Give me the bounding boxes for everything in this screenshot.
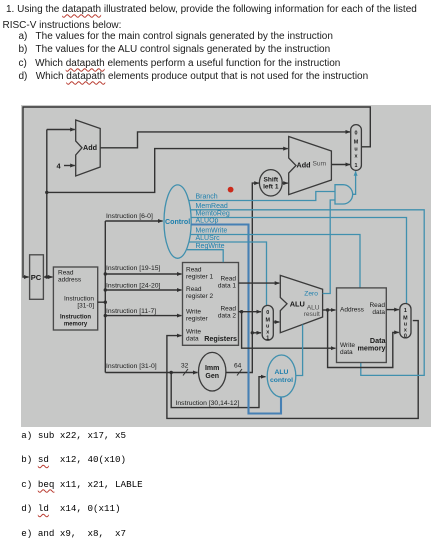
wire: AND output to PCSrc mux select [353, 171, 356, 194]
svg-text:data: data [186, 336, 199, 343]
svg-text:data 1: data 1 [218, 283, 236, 290]
wire: Zero flag to AND gate [323, 200, 335, 294]
mux ALUSrc [262, 305, 273, 340]
instruction memory box [53, 267, 97, 330]
wire: PC feedback from PCSrc mux to PC (top/left frame-like path) [23, 107, 370, 277]
svg-text:x: x [355, 154, 358, 160]
diagram gray background [21, 105, 431, 427]
svg-text:Instruction: Instruction [64, 296, 94, 303]
wire: PC output up to Add and branch to instruction memory [46, 130, 48, 278]
svg-text:Zero: Zero [304, 290, 318, 297]
svg-text:1: 1 [266, 335, 269, 341]
svg-text:Read: Read [220, 276, 236, 283]
svg-text:Write: Write [340, 342, 355, 349]
svg-text:control: control [270, 377, 293, 384]
svg-text:Instruction [30,14-12]: Instruction [30,14-12] [176, 400, 240, 407]
list item c [19, 58, 341, 69]
control signal MemWrite [190, 235, 360, 288]
svg-text:Address: Address [340, 306, 365, 313]
svg-text:Registers: Registers [204, 334, 237, 343]
wire: ALUSrc mux output to ALU input 2 [273, 321, 279, 323]
wire: Instruction [19-15] to Read register 1 [105, 273, 181, 275]
wire: shift left output to branch adder [282, 182, 288, 184]
svg-text:RegWrite: RegWrite [196, 243, 225, 250]
svg-text:ALUOp: ALUOp [196, 218, 219, 225]
svg-text:Read: Read [220, 306, 236, 313]
ALU shape [280, 275, 322, 332]
wire: instruction memory output to bus [98, 301, 106, 303]
wire: Read data to MemtoReg mux input 1 [386, 309, 399, 311]
wire: ALU result bypass to MemtoReg mux input 0 [328, 310, 399, 368]
svg-text:MemRead: MemRead [196, 203, 228, 210]
registers box [183, 263, 239, 346]
svg-text:Read: Read [186, 286, 202, 293]
svg-text:Write: Write [186, 329, 201, 336]
svg-text:Branch: Branch [196, 194, 218, 201]
instruction bus vertical [104, 221, 106, 373]
wire: writeback from MemtoReg mux to Registers Write data (bottom path) [167, 321, 418, 419]
red annotation dot [228, 187, 234, 193]
svg-text:register 2: register 2 [186, 293, 213, 300]
svg-text:64: 64 [234, 363, 242, 370]
wire: Imm Gen output to ALUSrc mux and shift left [226, 183, 259, 372]
svg-text:Read: Read [369, 302, 385, 309]
svg-text:Instruction [6-0]: Instruction [6-0] [106, 213, 153, 220]
mux PCSrc (top right) [351, 125, 362, 171]
wire: into Add(PC+4) top input [47, 129, 75, 131]
svg-text:Add: Add [297, 160, 311, 169]
svg-text:data 2: data 2 [218, 313, 236, 320]
wire: PC value to branch adder top input [47, 149, 288, 193]
svg-text:PC: PC [31, 273, 42, 282]
junction PC wire split [45, 191, 48, 194]
control signal MemRead [190, 210, 424, 376]
svg-text:Read: Read [186, 267, 202, 274]
control signal Branch [189, 192, 335, 201]
wire: immediate branch to ALUSrc mux input 1 [252, 332, 261, 334]
svg-text:Add: Add [83, 143, 97, 152]
svg-text:Instruction [31-0]: Instruction [31-0] [106, 363, 157, 370]
wire: Instruction [30,14-12] to ALU control [171, 373, 265, 408]
question paragraph line 2 [3, 20, 122, 31]
ALU control ellipse [267, 355, 296, 397]
wire: Instruction [6-0] to Control [105, 220, 162, 222]
list item b [19, 44, 331, 55]
svg-text:Write: Write [186, 309, 201, 316]
constant 4 into Add [64, 165, 75, 167]
bit width slash 32 [183, 369, 188, 376]
wire: branch adder output to PCSrc mux input 1 [331, 164, 350, 166]
shift left 1 ellipse [259, 170, 282, 196]
wire: ALU result to Data memory address [323, 309, 336, 311]
control unit ellipse [164, 185, 191, 258]
control signal ALUOp [191, 225, 281, 414]
svg-text:0: 0 [266, 310, 269, 316]
svg-text:u: u [354, 147, 357, 153]
wire: Instruction [11-7] to Write register [105, 315, 181, 317]
svg-text:Imm: Imm [205, 365, 219, 372]
svg-text:M: M [354, 140, 359, 146]
wire: Instruction [31-0] to Imm Gen [105, 372, 197, 374]
control signal RegWrite [187, 250, 223, 262]
svg-text:result: result [304, 311, 320, 318]
svg-text:0: 0 [404, 333, 407, 339]
svg-text:Read: Read [58, 270, 74, 277]
svg-text:data: data [340, 349, 353, 356]
svg-text:0: 0 [355, 131, 358, 137]
AND gate (branch) [335, 185, 353, 204]
svg-text:left 1: left 1 [263, 184, 279, 191]
svg-text:Control: Control [165, 218, 190, 226]
svg-text:1: 1 [404, 308, 407, 314]
PC register box [30, 255, 44, 299]
wire: Read data 2 down to Data memory Write data [242, 312, 336, 349]
wire: Read data 1 to ALU input 1 [239, 282, 280, 284]
list item d [19, 71, 369, 82]
svg-text:Sum: Sum [313, 160, 327, 167]
wire: ALU control output to ALU [296, 325, 303, 376]
svg-text:register 1: register 1 [186, 274, 213, 281]
svg-text:Instruction [11-7]: Instruction [11-7] [106, 308, 156, 315]
svg-text:32: 32 [181, 363, 189, 370]
adder Add Sum (branch target) [289, 137, 332, 195]
wire: Instruction [24-20] to Read register 2 [105, 289, 181, 291]
adder Add (PC+4) [76, 120, 101, 176]
control signal ALUSrc [189, 242, 267, 305]
svg-text:Gen: Gen [205, 373, 219, 380]
svg-text:Instruction [19-15]: Instruction [19-15] [106, 265, 161, 272]
question paragraph line 1 [6, 4, 417, 15]
list item a [19, 31, 333, 42]
svg-text:address: address [58, 277, 82, 284]
junction PC output [45, 275, 48, 278]
svg-text:ALU: ALU [275, 369, 289, 376]
svg-text:[31-0]: [31-0] [77, 303, 94, 310]
mux MemtoReg [400, 304, 411, 338]
svg-text:ALUSrc: ALUSrc [196, 235, 221, 242]
svg-text:data: data [372, 309, 385, 316]
control signal MemtoReg [191, 218, 407, 304]
svg-text:Shift: Shift [263, 176, 278, 183]
svg-text:register: register [186, 316, 209, 323]
data memory box [337, 288, 387, 363]
instruction list [21, 430, 126, 441]
svg-text:Instruction [24-20]: Instruction [24-20] [106, 282, 161, 289]
svg-text:ALU: ALU [290, 299, 305, 308]
bit width slash 64 [237, 369, 242, 376]
svg-text:memory: memory [358, 344, 386, 353]
svg-text:1: 1 [355, 163, 358, 169]
wire: Add(PC+4) output to PCSrc mux input 0 [100, 132, 350, 148]
wire: Read data 2 to ALUSrc mux input 0 [239, 311, 262, 313]
imm gen ellipse [199, 352, 226, 391]
svg-text:MemWrite: MemWrite [196, 228, 228, 235]
svg-text:Instruction: Instruction [60, 315, 91, 321]
svg-text:memory: memory [64, 322, 88, 328]
wire: PC out to instruction memory read address [43, 276, 52, 278]
